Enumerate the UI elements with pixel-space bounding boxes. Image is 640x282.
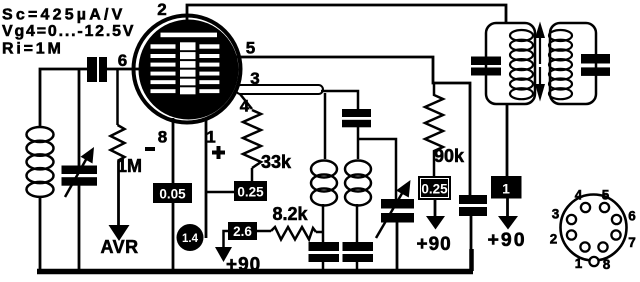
- box 0.05: [153, 183, 192, 203]
- capacitor C8 on left frame: [471, 57, 501, 76]
- capacitor C5: [309, 242, 340, 262]
- inductor L4 primary loops: [510, 30, 533, 99]
- wire T1 output drop: [506, 104, 509, 177]
- svg-text:2.6: 2.6: [233, 224, 252, 239]
- wire capsule to IF coil L2: [324, 93, 327, 159]
- svg-text:4: 4: [575, 188, 583, 203]
- socket pin numbers: [550, 188, 637, 273]
- variable capacitor C2: [62, 147, 98, 197]
- wire pin1 filament: [206, 118, 234, 238]
- wire C7 bottom to bus: [396, 222, 399, 271]
- arrow +90 first: [215, 231, 232, 262]
- box 0.25 first: [234, 181, 267, 201]
- variable capacitor C7: [376, 180, 414, 238]
- svg-text:3: 3: [552, 207, 560, 222]
- svg-text:5: 5: [246, 39, 255, 58]
- svg-text:5: 5: [602, 188, 610, 203]
- wire pin2 top to transformer: [187, 5, 506, 24]
- svg-text:8: 8: [603, 257, 611, 272]
- capacitor C1 coupling: [87, 57, 107, 82]
- inductor L1 antenna coil: [27, 127, 54, 197]
- svg-text:8: 8: [158, 128, 167, 147]
- svg-text:+90: +90: [417, 234, 452, 255]
- svg-text:3: 3: [250, 69, 259, 88]
- wire capsule to C3: [321, 91, 358, 110]
- svg-text:2: 2: [550, 232, 558, 247]
- svg-text:0.25: 0.25: [421, 182, 448, 197]
- wire L3 bottom: [356, 204, 359, 243]
- wire L1 bottom to bus: [39, 196, 42, 271]
- inductor L5 secondary loops: [549, 30, 572, 99]
- resistor R4 90k: [425, 83, 443, 176]
- svg-text:1: 1: [206, 128, 215, 147]
- svg-text:1.4: 1.4: [182, 233, 199, 245]
- svg-text:1M: 1M: [117, 156, 142, 176]
- resistor R1 1M: [111, 69, 125, 161]
- shielded lead pin3: [236, 85, 323, 94]
- wire C5 to bus: [322, 261, 325, 271]
- battery disc 1.4: [177, 224, 204, 251]
- svg-text:Sc=425µA/V: Sc=425µA/V: [2, 7, 126, 24]
- svg-text:Ri=1M: Ri=1M: [2, 41, 64, 58]
- svg-text:0.25: 0.25: [237, 185, 264, 200]
- tube V1 envelope: [134, 16, 241, 123]
- box 1: [491, 176, 522, 199]
- svg-text:1: 1: [502, 181, 510, 197]
- socket pin holes: [567, 203, 621, 252]
- wire pin8 filament: [172, 118, 175, 271]
- svg-text:90k: 90k: [434, 146, 465, 166]
- plus sign: [212, 146, 225, 159]
- resistor R3 8.2k: [257, 227, 324, 240]
- box 0.25 second: [418, 176, 451, 200]
- capacitor C9: [459, 195, 487, 216]
- coupling arrows: [535, 22, 545, 102]
- capacitor C10 on right frame: [581, 54, 610, 76]
- annotation text Sc/Vg4/Ri: [2, 7, 135, 58]
- svg-text:1: 1: [575, 256, 583, 271]
- wire C6 to bus: [356, 261, 359, 271]
- transformer T1 right frame: [550, 23, 596, 104]
- svg-text:AVR: AVR: [101, 237, 139, 257]
- wire var cap C2 drop: [78, 69, 81, 166]
- svg-text:0.05: 0.05: [159, 187, 186, 202]
- box 2.6: [228, 222, 257, 240]
- inductor L3 IF secondary: [345, 161, 371, 206]
- arrow +90 second: [426, 200, 445, 230]
- ground bus: [37, 269, 473, 275]
- arrow to AVR: [109, 161, 130, 241]
- wire C3 bottom to L3 and var cap: [357, 127, 396, 199]
- tube V1 electrodes (white bars): [151, 33, 220, 95]
- transformer T1 left frame: [486, 23, 535, 104]
- capacitor C3: [342, 109, 371, 127]
- minus sign: [145, 147, 155, 151]
- svg-text:+90: +90: [488, 229, 527, 251]
- inductor L2 IF primary: [311, 161, 337, 206]
- svg-text:2: 2: [157, 0, 166, 19]
- capacitor C6: [343, 242, 374, 262]
- svg-text:8.2k: 8.2k: [273, 204, 309, 224]
- svg-text:6: 6: [628, 209, 636, 224]
- wire L2 bottom: [322, 204, 325, 243]
- svg-text:7: 7: [628, 235, 636, 250]
- wire C9 bottom to bus corner: [470, 216, 473, 250]
- wire grid pin6: [40, 69, 140, 127]
- svg-text:Vg4=0...-12.5V: Vg4=0...-12.5V: [2, 23, 135, 40]
- resistor R2 33k: [240, 94, 261, 181]
- wire C2 bottom to bus: [78, 185, 81, 271]
- arrow +90 third: [498, 199, 518, 230]
- svg-text:33k: 33k: [261, 152, 292, 172]
- svg-text:6: 6: [118, 51, 127, 70]
- wire pin5 screen to 90k and cap: [236, 57, 470, 195]
- tube socket base: [561, 195, 627, 267]
